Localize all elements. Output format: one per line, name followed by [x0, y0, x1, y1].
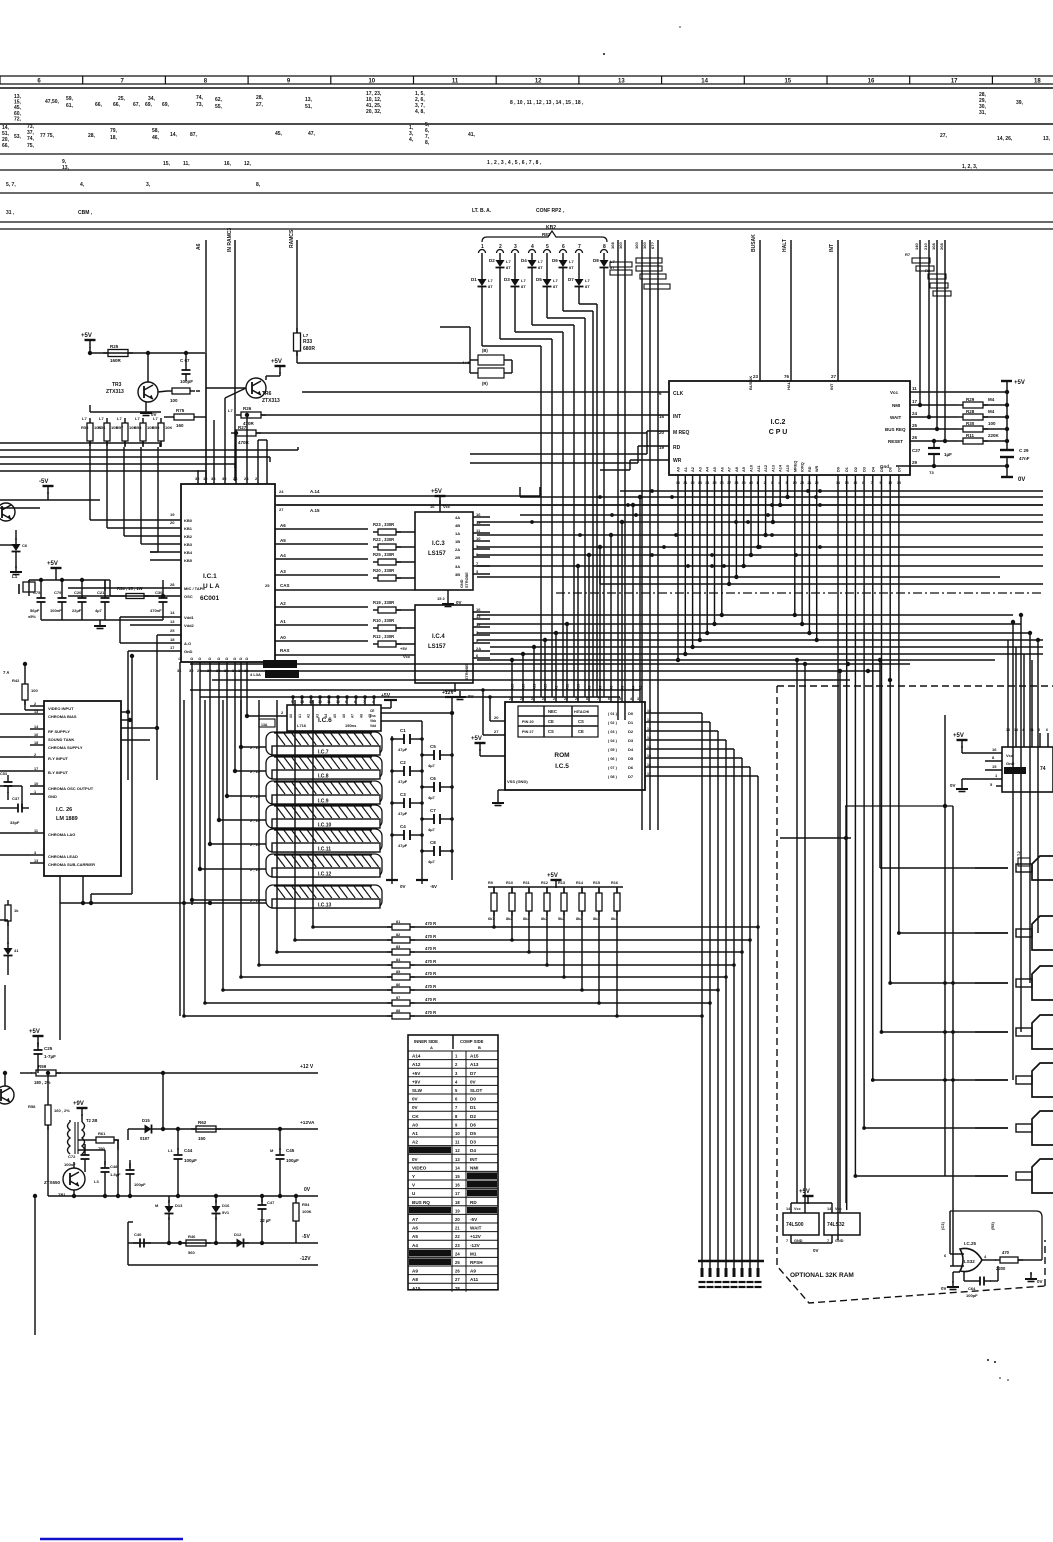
- node transformer T2: [68, 1118, 98, 1154]
- svg-text:A2: A2: [691, 467, 695, 472]
- svg-text:3,: 3,: [146, 182, 151, 188]
- svg-text:INNER SIDE: INNER SIDE: [414, 1039, 438, 1044]
- svg-text:2: 2: [34, 753, 36, 757]
- svg-text:CAS: CAS: [280, 583, 290, 588]
- svg-text:A6: A6: [412, 1226, 418, 1231]
- svg-text:R11: R11: [966, 433, 975, 438]
- svg-text:WR: WR: [470, 1208, 478, 1213]
- svg-text:A9: A9: [470, 1269, 476, 1274]
- resistor R61 750: [78, 1131, 119, 1151]
- wire CLK line: [302, 391, 669, 396]
- svg-text:0V: 0V: [941, 1286, 947, 1291]
- svg-text:11: 11: [327, 700, 331, 704]
- node edge connector 4: [975, 1015, 1053, 1049]
- svg-text:D7: D7: [568, 277, 574, 282]
- svg-text:45,: 45,: [275, 131, 283, 137]
- svg-text:L7: L7: [506, 259, 511, 264]
- svg-text:R9: R9: [488, 881, 493, 885]
- svg-text:1µF: 1µF: [944, 452, 952, 457]
- resistor R29 M4: [892, 397, 1007, 408]
- svg-text:CBM ,: CBM ,: [78, 210, 93, 216]
- svg-text:CE: CE: [548, 719, 554, 724]
- svg-text:19: 19: [793, 481, 797, 485]
- svg-text:13: 13: [897, 481, 901, 485]
- svg-text:C8: C8: [430, 840, 436, 845]
- svg-text:A: A: [430, 1045, 433, 1050]
- resistor R19 330R: [275, 600, 415, 613]
- wire ULA pin drops: [180, 676, 247, 1016]
- svg-text:210: 210: [923, 243, 928, 250]
- ground osc caps: [41, 609, 163, 629]
- svg-text:+5V: +5V: [400, 646, 408, 651]
- wire data to connectors: [854, 931, 1009, 1178]
- resistor R55 10K: [81, 416, 101, 447]
- svg-text:CHROMA BIAS: CHROMA BIAS: [48, 714, 77, 719]
- svg-text:100pF: 100pF: [180, 379, 193, 384]
- svg-text:R19 , 330R: R19 , 330R: [373, 600, 394, 605]
- capacitor C40: [128, 1222, 151, 1248]
- resistor R22 330R: [275, 537, 415, 550]
- svg-text:L3: L3: [94, 1179, 99, 1184]
- wire ULA bottom stubs: [177, 657, 249, 676]
- svg-text:39: 39: [742, 481, 746, 485]
- resistor R58: [28, 1071, 70, 1196]
- svg-text:D3: D3: [470, 1140, 476, 1145]
- svg-text:14: 14: [836, 481, 840, 485]
- svg-text:+5V: +5V: [547, 873, 558, 879]
- svg-text:10: 10: [476, 536, 481, 541]
- resistor R34: [110, 586, 165, 599]
- svg-text:28: 28: [244, 476, 249, 481]
- svg-text:A1: A1: [280, 619, 286, 624]
- svg-text:470 R: 470 R: [425, 984, 436, 989]
- svg-text:0V: 0V: [304, 1187, 311, 1193]
- wire left col: [0, 901, 212, 1030]
- ground 32K: [791, 1243, 832, 1253]
- svg-text:12: 12: [647, 727, 651, 731]
- svg-text:1 , 2 , 3 , 4 , 5 , 6 ,: 1 , 2 , 3 , 4 , 5 , 6 , 7 , 8 ,: [487, 160, 542, 166]
- svg-text:CHROMA LEAD: CHROMA LEAD: [48, 854, 78, 859]
- wire left edge kb lines: [0, 443, 298, 471]
- svg-text:20: 20: [455, 1217, 460, 1222]
- svg-text:74,: 74,: [196, 95, 204, 101]
- op-amp U17 LS32 gate: [960, 1241, 982, 1272]
- svg-text:33: 33: [698, 481, 702, 485]
- resistor R56 10K: [98, 416, 118, 447]
- svg-text:47µF: 47µF: [398, 747, 408, 752]
- svg-text:55,: 55,: [215, 104, 223, 110]
- node edge connector 6: [975, 1111, 1053, 1145]
- svg-text:A15: A15: [412, 1286, 421, 1291]
- svg-text:A4: A4: [412, 1243, 418, 1248]
- svg-text:0V: 0V: [813, 1248, 819, 1253]
- svg-text:470R: 470R: [238, 440, 250, 445]
- svg-text:26: 26: [912, 435, 918, 440]
- svg-text:INT: INT: [829, 244, 835, 252]
- svg-text:( 05 ): ( 05 ): [608, 748, 618, 752]
- svg-text:D0: D0: [837, 467, 841, 472]
- svg-text:L7: L7: [117, 416, 122, 421]
- svg-text:0197: 0197: [140, 1136, 150, 1141]
- svg-text:20, 32,: 20, 32,: [366, 109, 382, 115]
- svg-text:R30: R30: [966, 421, 975, 426]
- svg-text:ZTX313: ZTX313: [106, 389, 124, 395]
- ground ram caps: [386, 880, 437, 889]
- svg-text:27,: 27,: [256, 102, 264, 108]
- svg-text:D3: D3: [504, 277, 510, 282]
- svg-text:L7: L7: [153, 416, 158, 421]
- svg-text:24: 24: [912, 411, 918, 416]
- svg-text:I.C.13: I.C.13: [318, 903, 332, 909]
- wire +5 right rail: [1005, 392, 1009, 448]
- svg-text:10: 10: [455, 1131, 460, 1136]
- svg-text:108: 108: [931, 243, 936, 250]
- svg-text:Vcc: Vcc: [794, 1207, 801, 1211]
- svg-text:87: 87: [396, 996, 400, 1000]
- svg-text:R27: R27: [238, 425, 247, 430]
- node IN-RAMCS feed: [227, 228, 235, 481]
- svg-text:31: 31: [177, 668, 182, 673]
- svg-text:4: 4: [630, 697, 632, 701]
- svg-text:100: 100: [634, 242, 639, 249]
- svg-text:KB2: KB2: [184, 534, 193, 539]
- op-amp U18 LM1889 box: [44, 701, 121, 876]
- ground 74LS: [950, 779, 985, 792]
- svg-text:13,: 13,: [62, 165, 70, 171]
- ground TR3: [140, 402, 157, 417]
- power +5V ram: [381, 693, 397, 708]
- diode D13: [155, 1196, 183, 1245]
- svg-text:18: 18: [170, 637, 175, 642]
- svg-text:GND: GND: [835, 1239, 844, 1243]
- svg-text:I.C.8: I.C.8: [318, 774, 329, 780]
- svg-text:IORQ: IORQ: [801, 462, 805, 472]
- svg-text:88: 88: [396, 1009, 400, 1013]
- svg-text:21: 21: [807, 481, 811, 485]
- svg-text:D6: D6: [470, 1122, 476, 1127]
- svg-text:R20 , 330R: R20 , 330R: [373, 568, 394, 573]
- wire ULA top stubs: [195, 470, 267, 484]
- svg-text:2: 2: [764, 481, 766, 485]
- svg-text:56pF: 56pF: [30, 608, 40, 613]
- diode D4: [521, 253, 543, 274]
- svg-text:4,: 4,: [409, 137, 414, 143]
- svg-text:17: 17: [647, 772, 651, 776]
- svg-text:HALT: HALT: [786, 379, 791, 390]
- svg-text:SOUND TANK: SOUND TANK: [48, 737, 74, 742]
- svg-text:C 29: C 29: [1019, 448, 1029, 453]
- svg-text:4µ7: 4µ7: [428, 827, 436, 832]
- wire -12V rail: [128, 1243, 318, 1265]
- svg-text:R75: R75: [176, 408, 185, 413]
- svg-text:21: 21: [455, 1226, 460, 1231]
- power +5V ROM: [471, 736, 505, 756]
- resistor R70 470: [995, 1250, 1034, 1271]
- op-amp U4 LS157: [415, 605, 473, 683]
- svg-text:82: 82: [396, 933, 400, 937]
- top table row5 numbers: [6, 208, 565, 216]
- capacitor C43 100pF: [126, 1160, 147, 1196]
- wire 470R riser 7: [203, 700, 207, 1005]
- svg-text:B: B: [478, 1045, 481, 1050]
- svg-text:10: 10: [318, 700, 322, 704]
- node edge connector 5: [975, 1063, 1053, 1097]
- svg-text:19: 19: [455, 1208, 460, 1213]
- resistor R54 100K: [293, 1194, 312, 1243]
- resistor R88 470R: [184, 1009, 704, 1019]
- wire right drops: [1011, 613, 1040, 1080]
- op-amp U8 RAM IC8: [250, 756, 382, 780]
- svg-text:KB4: KB4: [184, 550, 193, 555]
- svg-text:M4: M4: [988, 409, 995, 414]
- svg-text:D1: D1: [470, 1105, 476, 1110]
- svg-text:C21: C21: [97, 590, 105, 595]
- svg-text:5: 5: [786, 481, 788, 485]
- svg-text:208: 208: [939, 243, 944, 250]
- svg-text:WAIT: WAIT: [470, 1226, 482, 1231]
- wire left edge lower: [0, 500, 48, 545]
- wire psu mid: [78, 1140, 118, 1196]
- svg-text:A6: A6: [196, 243, 202, 250]
- svg-text:+5V: +5V: [412, 1071, 421, 1076]
- node edge connector 3: [975, 966, 1053, 1000]
- resistor R33 680R: [294, 328, 471, 363]
- svg-text:2A: 2A: [476, 646, 481, 651]
- resistor R83 470R: [277, 945, 744, 955]
- svg-text:100nF: 100nF: [50, 608, 62, 613]
- svg-text:560: 560: [188, 1250, 195, 1255]
- svg-text:CE: CE: [370, 709, 374, 713]
- svg-text:59,: 59,: [66, 96, 74, 102]
- svg-text:A6: A6: [342, 714, 346, 718]
- wire data-address bus: [277, 491, 1043, 660]
- svg-text:46,: 46,: [152, 135, 160, 141]
- svg-text:M4: M4: [988, 397, 995, 402]
- svg-text:CONF RP2 ,: CONF RP2 ,: [536, 208, 565, 214]
- diode D3: [504, 253, 526, 293]
- wire ULA RAS: [275, 648, 415, 655]
- svg-text:±5%: ±5%: [28, 614, 36, 619]
- svg-text:Vcc: Vcc: [835, 1207, 842, 1211]
- node optional RAM boundary: [777, 686, 1053, 1303]
- svg-text:108: 108: [610, 242, 615, 249]
- svg-text:CHROMA SUPPLY: CHROMA SUPPLY: [48, 745, 83, 750]
- svg-text:10: 10: [888, 481, 892, 485]
- svg-text:CS: CS: [548, 729, 554, 734]
- svg-text:+5V: +5V: [271, 359, 282, 365]
- svg-text:3: 3: [34, 851, 36, 855]
- node edge connector 7: [975, 1159, 1053, 1193]
- wire +12VA rail: [163, 1120, 318, 1131]
- wire psu drop: [33, 1194, 37, 1335]
- svg-text:D8: D8: [593, 258, 599, 263]
- wire ULA A15: [275, 505, 1043, 513]
- svg-text:ZTX650: ZTX650: [44, 1180, 61, 1185]
- wire CPU INT label: [673, 414, 681, 420]
- resistor R59 10K: [152, 416, 172, 447]
- svg-text:OPTIONAL 32K RAM: OPTIONAL 32K RAM: [790, 1272, 854, 1279]
- svg-text:GND: GND: [48, 794, 57, 799]
- resistor R26 470R: [228, 406, 669, 426]
- svg-text:BUSAK: BUSAK: [751, 234, 757, 252]
- wire RAM IC10 feed: [217, 818, 266, 822]
- svg-text:M1: M1: [470, 1251, 477, 1256]
- svg-text:R25: R25: [110, 344, 119, 349]
- svg-text:OSC: OSC: [184, 594, 193, 599]
- svg-text:A8: A8: [359, 714, 363, 718]
- svg-text:14, 26,: 14, 26,: [997, 136, 1013, 142]
- svg-text:CS: CS: [578, 719, 584, 724]
- svg-text:IN RAMC3: IN RAMC3: [227, 228, 233, 252]
- resistor R81 470R: [313, 920, 760, 930]
- svg-text:+5V: +5V: [953, 733, 964, 739]
- wire 470R riser 6: [221, 700, 225, 992]
- svg-text:( 03 ): ( 03 ): [608, 730, 618, 734]
- svg-text:40: 40: [749, 481, 753, 485]
- svg-text:41,: 41,: [468, 132, 476, 138]
- svg-text:67,: 67,: [133, 102, 141, 108]
- svg-text:R55: R55: [81, 425, 89, 430]
- svg-text:RESET: RESET: [888, 439, 903, 444]
- svg-text:PIN 27: PIN 27: [522, 730, 534, 734]
- svg-text:I.C.12: I.C.12: [318, 872, 332, 878]
- resistor R87 470R: [205, 996, 712, 1006]
- svg-text:5: 5: [291, 700, 293, 704]
- svg-text:U L A: U L A: [203, 583, 220, 590]
- svg-text:SLW: SLW: [412, 1088, 423, 1093]
- svg-text:2B: 2B: [455, 555, 460, 560]
- svg-text:470 R: 470 R: [425, 997, 436, 1002]
- svg-text:WR: WR: [673, 458, 682, 464]
- svg-text:A6: A6: [720, 467, 724, 472]
- svg-text:16: 16: [647, 763, 651, 767]
- svg-text:79,: 79,: [110, 128, 118, 134]
- svg-text:28,: 28,: [88, 133, 96, 139]
- resistor R9 pullup: [488, 881, 497, 929]
- svg-text:-5V: -5V: [470, 1217, 478, 1222]
- svg-text:TR6: TR6: [262, 391, 272, 397]
- svg-text:L7: L7: [82, 416, 87, 421]
- svg-text:D4: D4: [521, 258, 527, 263]
- svg-text:47µF: 47µF: [398, 811, 408, 816]
- svg-text:+12 V: +12 V: [300, 1064, 314, 1070]
- svg-text:3A: 3A: [455, 564, 460, 569]
- svg-text:13: 13: [647, 736, 651, 740]
- svg-text:I.C. 26: I.C. 26: [56, 807, 72, 813]
- transistor TR7: [0, 503, 15, 521]
- svg-text:Y: Y: [412, 1174, 415, 1179]
- svg-text:CHROMA OSC OUTPUT: CHROMA OSC OUTPUT: [48, 786, 94, 791]
- svg-text:C25: C25: [44, 1046, 53, 1051]
- svg-text:0V: 0V: [400, 884, 406, 889]
- svg-text:Vss: Vss: [370, 714, 376, 718]
- wire CPU top pins: [748, 376, 834, 390]
- wire LM1889 loop: [89, 654, 134, 905]
- node A6 feed: [196, 240, 206, 484]
- svg-text:A4: A4: [280, 553, 286, 558]
- svg-text:D12: D12: [234, 1232, 242, 1237]
- svg-text:220K: 220K: [988, 433, 1000, 438]
- svg-text:87,: 87,: [190, 132, 198, 138]
- svg-text:D2: D2: [854, 467, 858, 472]
- svg-text:GND: GND: [460, 579, 464, 588]
- svg-text:A1: A1: [684, 467, 688, 472]
- svg-text:A11: A11: [757, 465, 761, 472]
- capacitor C2 47uF: [390, 760, 424, 784]
- node DRAMWE label: [250, 670, 299, 678]
- wire CPU RD: [470, 445, 682, 470]
- top table row2 numbers: [2, 122, 1051, 149]
- svg-text:6: 6: [345, 700, 347, 704]
- svg-text:17: 17: [951, 79, 958, 85]
- wire IC4 vcc: [400, 646, 411, 659]
- wire kb pin risers: [90, 447, 158, 552]
- wire 74LS top pins: [1006, 728, 1048, 747]
- svg-text:33pF: 33pF: [10, 820, 20, 825]
- svg-text:A15: A15: [470, 1054, 479, 1059]
- svg-text:16: 16: [476, 607, 481, 612]
- svg-text:D15: D15: [142, 1118, 150, 1123]
- wire reset-wait feeds: [914, 240, 947, 443]
- svg-text:A22: A22: [566, 684, 570, 690]
- resistor network RN3: [905, 252, 951, 296]
- svg-text:1-7µF: 1-7µF: [44, 1054, 56, 1059]
- svg-text:0V: 0V: [470, 1079, 477, 1084]
- svg-text:L7: L7: [135, 416, 140, 421]
- svg-text:13: 13: [455, 1157, 460, 1162]
- svg-text:( 06 ): ( 06 ): [608, 757, 618, 761]
- wire IC3 vcc: [430, 489, 451, 512]
- svg-text:R16: R16: [611, 881, 618, 885]
- power +5V pullups: [488, 873, 623, 888]
- svg-text:47,: 47,: [308, 131, 316, 137]
- svg-text:A3: A3: [698, 467, 702, 472]
- wire 32K risers: [780, 658, 851, 1213]
- svg-text:8T: 8T: [538, 265, 543, 270]
- svg-text:R42: R42: [12, 678, 20, 683]
- svg-text:76: 76: [784, 374, 790, 379]
- svg-text:+9V: +9V: [412, 1079, 421, 1084]
- svg-text:14: 14: [701, 79, 708, 85]
- resistor R14 pullup: [576, 881, 585, 992]
- svg-text:A14: A14: [412, 1054, 421, 1059]
- svg-text:74LS32: 74LS32: [827, 1222, 845, 1228]
- capacitor C8 47uF: [420, 840, 454, 864]
- svg-text:D16: D16: [222, 1203, 230, 1208]
- svg-text:12: 12: [203, 476, 208, 481]
- svg-text:D3: D3: [863, 467, 867, 472]
- svg-text:C7: C7: [430, 808, 436, 813]
- svg-text:4 L3A: 4 L3A: [250, 672, 261, 677]
- svg-text:R61: R61: [98, 1131, 106, 1136]
- svg-text:12,: 12,: [244, 161, 252, 167]
- svg-text:I.C.5: I.C.5: [555, 763, 569, 770]
- svg-text:BUS REQ: BUS REQ: [885, 427, 906, 432]
- svg-text:8T: 8T: [553, 284, 558, 289]
- svg-text:0V: 0V: [412, 1157, 419, 1162]
- svg-text:HALT: HALT: [470, 1174, 482, 1179]
- svg-text:(B): (B): [482, 348, 488, 353]
- resistor R25 160R: [103, 344, 133, 363]
- svg-text:100: 100: [170, 398, 178, 403]
- svg-text:C27: C27: [912, 448, 921, 453]
- svg-text:8T: 8T: [506, 265, 511, 270]
- svg-text:ROM: ROM: [554, 752, 569, 759]
- resistor R20 330R: [275, 568, 415, 581]
- svg-text:A14: A14: [779, 464, 783, 472]
- svg-text:C 67: C 67: [180, 358, 190, 363]
- svg-text:+12V: +12V: [470, 1234, 482, 1239]
